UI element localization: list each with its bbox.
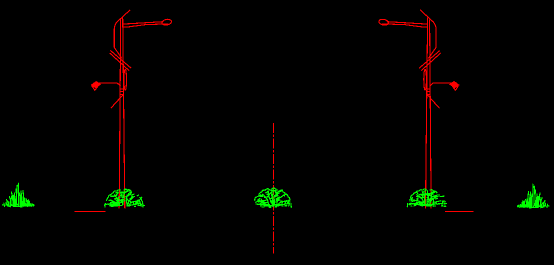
lamp post left — [91, 10, 172, 208]
shrub at right pole base — [407, 189, 446, 207]
shrub at centerline — [255, 188, 292, 207]
road centerline (dash-dot) — [272, 124, 274, 254]
ground line left — [75, 210, 105, 212]
grass clump far right — [518, 184, 550, 208]
lamp post right (mirrored) — [378, 10, 459, 208]
grass clump far left — [3, 183, 35, 207]
ground line right — [446, 210, 474, 212]
shrub at left pole base — [105, 189, 145, 207]
